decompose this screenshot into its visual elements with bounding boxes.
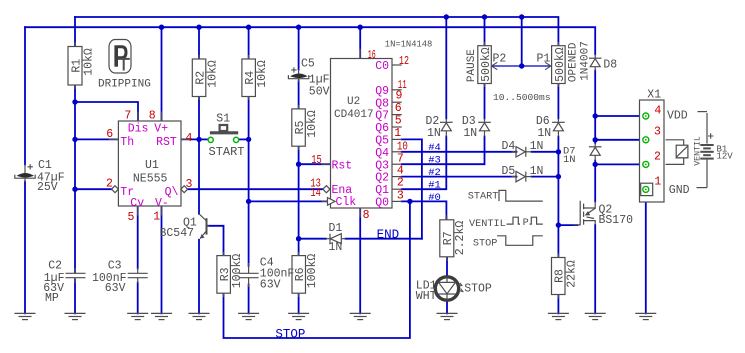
wire U1 pin1 to ground (161, 206, 163, 313)
svg-text:Q6: Q6 (375, 122, 389, 135)
capacitor C4 (239, 263, 259, 287)
junction pin2 node (593, 162, 598, 167)
wire V+ supply rail (25, 27, 595, 54)
svg-text:63V: 63V (260, 279, 281, 292)
svg-text:C5: C5 (301, 58, 315, 71)
wire R1 top (74, 17, 76, 47)
resistor R5 (292, 105, 306, 150)
svg-text:50V: 50V (309, 86, 330, 99)
wire END row right (346, 238, 422, 240)
wire D5 cathode to gate column (532, 176, 559, 178)
resistor R8 (552, 254, 566, 299)
svg-text:7: 7 (124, 110, 131, 123)
junction Th node (72, 137, 77, 142)
wire Tr pin2 (75, 188, 112, 190)
svg-text:Q5: Q5 (375, 135, 389, 148)
wire LED to ground (446, 302, 448, 314)
svg-text:VENTIL: VENTIL (694, 136, 703, 166)
svg-text:Q4: Q4 (375, 147, 389, 160)
svg-text:V-: V- (155, 197, 169, 210)
wire C5 top (298, 27, 300, 69)
wire Clk row (249, 200, 331, 202)
svg-text:Clk: Clk (336, 196, 357, 209)
svg-text:NE555: NE555 (133, 173, 168, 186)
svg-text:1N: 1N (530, 140, 544, 153)
junction R4 on V+ rail (246, 25, 251, 30)
ground R6 (288, 313, 309, 319)
wire S1 to C4 / Clk column (248, 139, 250, 266)
svg-text:#2: #2 (428, 167, 441, 179)
ground U1 C1 (15, 313, 36, 319)
svg-text:8: 8 (363, 209, 370, 222)
wire U1 pin5 to C3 (137, 206, 139, 269)
svg-text:4: 4 (654, 104, 661, 117)
wire P2 to D3 (484, 84, 486, 119)
junction Rst node (296, 162, 301, 167)
wire R5 to R6 column (298, 146, 300, 256)
svg-text:Q3: Q3 (375, 159, 389, 172)
svg-text:4: 4 (397, 165, 404, 178)
junction VDD pin4 (593, 113, 598, 118)
wire D4 cathode to gate column (532, 151, 559, 153)
ground Q2 source (585, 313, 606, 319)
svg-text:1N: 1N (427, 127, 441, 140)
svg-text:U2: U2 (347, 96, 360, 108)
svg-text:BS170: BS170 (599, 214, 634, 227)
wire Th pin6 (75, 138, 118, 140)
wire C2 to ground (74, 280, 76, 314)
wire Q5 to END riser (402, 139, 422, 238)
svg-text:DRIPPING: DRIPPING (98, 79, 151, 91)
svg-text:MP: MP (45, 292, 59, 305)
junction D2 on timing rail (444, 14, 449, 19)
op-amp U2 CD4017 box (322, 49, 402, 218)
wire S1 left stub (199, 138, 208, 140)
junction wiper on timing rail (519, 14, 524, 19)
wire C1 top branch (24, 27, 26, 164)
svg-text:500kΩ: 500kΩ (554, 47, 567, 82)
svg-text:9: 9 (396, 90, 403, 103)
svg-text:10kΩ: 10kΩ (256, 60, 269, 88)
potentiometer P2 (478, 42, 498, 87)
svg-text:6: 6 (106, 128, 113, 141)
wire C5 to R5 (298, 81, 300, 109)
svg-text:START: START (468, 192, 499, 203)
junction D5 cathode (556, 174, 561, 179)
svg-text:D8: D8 (603, 59, 617, 72)
wire Q1 output row to D2 (402, 137, 447, 190)
svg-text:1: 1 (654, 176, 661, 189)
wire R1 bottom / timing node column (74, 85, 76, 273)
svg-text:15: 15 (311, 154, 322, 167)
wire U2 pin16 (359, 27, 361, 58)
svg-text:C2: C2 (48, 260, 62, 273)
LED LD1 (435, 277, 463, 300)
svg-text:STOP: STOP (275, 327, 305, 341)
junction pin8 on V+ rail (159, 25, 164, 30)
wire END row left (299, 238, 326, 240)
wire Q3 row to D3 (402, 137, 485, 165)
svg-text:5: 5 (128, 211, 135, 224)
resistor R7 (440, 215, 454, 261)
battery B1 (700, 113, 713, 188)
junction pin3 node (593, 137, 598, 142)
junction R2 on V+ rail (196, 25, 201, 30)
svg-text:1N: 1N (537, 127, 551, 140)
svg-text:Q8: Q8 (375, 97, 389, 110)
junction P2 on timing rail (482, 14, 487, 19)
svg-text:P: P (523, 218, 529, 229)
junction wiper node (519, 63, 524, 68)
diode D3 (478, 119, 491, 137)
junction C5 on V+ rail (296, 25, 301, 30)
svg-text:10kΩ: 10kΩ (206, 60, 219, 88)
wire X1 pin4 row (595, 115, 643, 117)
junction D4 cathode (556, 149, 561, 154)
svg-text:Rst: Rst (332, 159, 353, 172)
wire Dis pin7 branch (75, 102, 138, 121)
logo dripping tap (109, 40, 131, 74)
svg-text:P2: P2 (493, 53, 507, 66)
wire C1 to ground (24, 182, 26, 314)
svg-text:VENTIL: VENTIL (469, 219, 506, 230)
junction Clk node (246, 199, 251, 204)
svg-text:GND: GND (669, 184, 690, 197)
svg-text:500kΩ: 500kΩ (480, 47, 493, 82)
diode D5 (512, 171, 532, 181)
wire D7 to pin2 dot (594, 161, 596, 202)
wire D8 to VDD dot (594, 71, 596, 144)
capacitor C3 (128, 268, 148, 283)
svg-text:1N4007: 1N4007 (580, 41, 592, 81)
diode D8 (589, 54, 602, 70)
wire D6 gate column (557, 137, 559, 258)
svg-text:D4: D4 (502, 140, 516, 153)
wire R4 top (248, 27, 250, 59)
junction STOP riser (407, 199, 412, 204)
wire Q1 base to R3 (208, 226, 224, 256)
capacitor C5 (288, 67, 308, 82)
transistor Q2 BS170 (573, 201, 595, 225)
junction D1 node (296, 236, 301, 241)
svg-text:PAUSE: PAUSE (466, 49, 478, 82)
wire C4 to ground (248, 285, 250, 314)
wire gate row (558, 224, 577, 226)
ground C3 (127, 313, 148, 319)
svg-text:S1: S1 (216, 112, 230, 125)
pushbutton S1 (208, 125, 239, 142)
svg-text:START: START (209, 145, 245, 159)
svg-text:1N: 1N (563, 154, 576, 166)
valve VENTIL symbol (666, 140, 688, 165)
svg-text:Q2: Q2 (375, 172, 389, 185)
svg-text:2.2kΩ: 2.2kΩ (454, 221, 467, 256)
svg-text:12: 12 (399, 55, 409, 68)
svg-text:VDD: VDD (667, 110, 688, 123)
wire Q1 emitter to ground (198, 240, 200, 314)
svg-text:1N: 1N (530, 165, 544, 178)
resistor R6 (292, 252, 306, 297)
junction Dis node (72, 99, 77, 104)
svg-text:D5: D5 (502, 165, 516, 178)
ground X1 pin1 (635, 313, 656, 319)
svg-text:STOP: STOP (464, 283, 492, 296)
junction pin16 on V+ rail (358, 25, 363, 30)
wire V+ to pin8 (161, 27, 163, 121)
wire Q2 source to ground (594, 225, 596, 314)
svg-text:12V: 12V (717, 152, 734, 162)
wire Rst row (299, 163, 331, 165)
svg-text:2: 2 (397, 177, 404, 190)
svg-text:10..5000ms: 10..5000ms (493, 92, 551, 103)
diode D6 (552, 119, 565, 137)
wire RST pin4 to S1 (181, 138, 199, 140)
wire Q2 row to D5 (402, 176, 517, 178)
ground Q1 emitter (189, 313, 210, 319)
VDD bracket (698, 111, 708, 113)
svg-text:Q0: Q0 (375, 197, 389, 210)
svg-text:1: 1 (153, 211, 160, 224)
junction S1 right (246, 137, 251, 142)
svg-text:#0: #0 (428, 192, 441, 204)
svg-text:14: 14 (310, 187, 321, 200)
wire U2 pin8 to ground (359, 208, 361, 313)
wire X1 pin2 row (595, 163, 643, 165)
svg-text:2: 2 (106, 178, 113, 191)
wire Q4 row to D4 (402, 151, 517, 153)
svg-text:U1: U1 (145, 159, 159, 172)
svg-text:4: 4 (186, 132, 193, 145)
ground LD1 (437, 313, 458, 319)
capacitor C1 (15, 164, 35, 182)
svg-text:#1: #1 (428, 180, 441, 192)
svg-text:C0: C0 (375, 60, 389, 73)
wire X1 pin1 to ground (645, 193, 647, 314)
svg-text:100kΩ: 100kΩ (306, 254, 319, 289)
wire R7 to LED (446, 257, 448, 276)
svg-text:Cv: Cv (130, 197, 144, 210)
wire pot wiper drop (521, 17, 523, 66)
svg-text:3: 3 (654, 126, 661, 139)
svg-text:Q1: Q1 (375, 184, 389, 197)
wire Q0 row to R7 (402, 201, 447, 219)
svg-text:5: 5 (395, 115, 402, 128)
svg-text:CD4017: CD4017 (334, 109, 374, 121)
svg-text:BC547: BC547 (160, 227, 195, 240)
svg-text:1N=1N4148: 1N=1N4148 (385, 39, 433, 49)
svg-text:WHT: WHT (416, 290, 437, 303)
wire R4 bottom (248, 97, 250, 140)
svg-text:Q9: Q9 (375, 85, 389, 98)
junction S1 left (196, 137, 201, 142)
waveform START pulse (499, 190, 543, 201)
resistor R1 (68, 42, 82, 89)
ground U1 pin1 (151, 313, 172, 319)
svg-text:V+: V+ (154, 122, 168, 135)
wire Q output to Ena row (187, 188, 324, 190)
svg-text:Th: Th (120, 136, 134, 149)
wire S1 right stub (239, 138, 249, 140)
svg-text:C1: C1 (38, 159, 52, 172)
wire R8 to ground (557, 295, 559, 314)
diode D4 (512, 147, 532, 157)
svg-text:6: 6 (395, 102, 402, 115)
capacitor C2 (66, 268, 86, 283)
svg-text:8: 8 (149, 110, 156, 123)
diode D7 (589, 143, 602, 161)
waveform STOP pulse (497, 236, 543, 246)
svg-text:1N: 1N (463, 127, 477, 140)
junction gate node (556, 222, 561, 227)
ground U2 pin8 (350, 313, 371, 319)
ground C2 (65, 313, 86, 319)
transistor Q1 BC547 (199, 214, 209, 239)
svg-text:C3: C3 (108, 260, 122, 273)
wire P1 to D6 (557, 84, 559, 119)
op-amp U1 NE555 box (109, 112, 191, 216)
svg-text:#3: #3 (428, 155, 441, 167)
svg-text:#4: #4 (428, 142, 441, 154)
svg-text:100kΩ: 100kΩ (231, 254, 244, 289)
junction Tr node (72, 187, 77, 192)
wire V+ upper timing rail (75, 17, 558, 46)
diode D2 (440, 119, 453, 137)
potentiometer P1 (545, 42, 565, 87)
svg-text:Dis: Dis (128, 122, 149, 135)
svg-text:1N: 1N (329, 241, 343, 254)
svg-text:16: 16 (368, 49, 376, 62)
wire X1 pin3 row (595, 139, 643, 141)
svg-text:7: 7 (397, 152, 404, 165)
svg-text:10kΩ: 10kΩ (82, 48, 95, 76)
svg-text:63V: 63V (105, 282, 126, 295)
wire R6 to ground (298, 293, 300, 313)
wire R2 top (198, 27, 200, 59)
ground C4 (238, 313, 259, 319)
resistor R3 (217, 252, 231, 297)
connector X1 (640, 100, 665, 202)
wire R2 bottom (198, 97, 200, 140)
wire wiper row (493, 65, 551, 67)
svg-text:END: END (377, 228, 400, 242)
svg-text:D1: D1 (329, 222, 343, 235)
svg-text:P1: P1 (537, 53, 551, 66)
svg-text:25V: 25V (37, 181, 58, 194)
wire Q1 collector (198, 139, 200, 213)
GND bracket (697, 187, 708, 189)
svg-text:22kΩ: 22kΩ (566, 260, 579, 288)
resistor R2 (192, 55, 206, 100)
wire R3 to STOP row (224, 201, 410, 338)
svg-text:Q7: Q7 (375, 110, 389, 123)
svg-text:RST: RST (156, 136, 177, 149)
svg-text:X1: X1 (647, 88, 661, 101)
svg-text:OPENED: OPENED (568, 42, 580, 82)
wire rail to D2 (445, 17, 447, 119)
waveform VENTIL pulses (507, 217, 521, 224)
wire P2 top (484, 17, 486, 46)
svg-text:3: 3 (397, 189, 404, 202)
diode D1 (326, 234, 346, 244)
wire C3 to ground (137, 283, 139, 314)
svg-text:2: 2 (654, 151, 661, 164)
svg-text:10kΩ: 10kΩ (306, 110, 319, 138)
svg-text:3: 3 (186, 178, 193, 191)
ground R8 (548, 313, 569, 319)
resistor R4 (242, 55, 256, 100)
svg-text:STOP: STOP (473, 238, 497, 249)
svg-text:1: 1 (394, 127, 401, 140)
